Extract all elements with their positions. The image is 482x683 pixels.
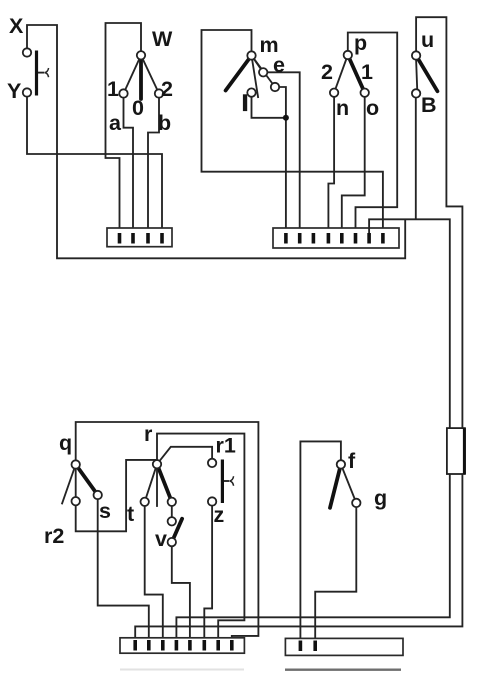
svg-text:o: o: [366, 96, 379, 120]
label t: [127, 502, 134, 526]
svg-text:X: X: [9, 14, 24, 38]
wire b: contact 2 to J1 pin 3: [148, 98, 159, 236]
selector S7 (r) common wire to C3 pin 7: [157, 434, 244, 641]
svg-text:r1: r1: [216, 434, 236, 458]
selector m throw to contact e: [252, 56, 264, 73]
label f: [348, 449, 356, 473]
selector p wiper to contact o: [348, 55, 365, 93]
label p: [354, 31, 367, 55]
J1 pin 1: [118, 233, 122, 244]
contact z: [208, 497, 216, 505]
C4 pin 2: [313, 641, 317, 652]
contact f: [337, 460, 345, 468]
contact p common: [344, 51, 352, 59]
label g: [374, 486, 387, 510]
label z: [214, 503, 225, 527]
contact g: [352, 499, 360, 507]
connector J1: [107, 228, 172, 247]
label v: [155, 527, 167, 551]
selector W throw to contact 1: [124, 55, 142, 93]
contact t: [141, 498, 149, 506]
selector S6 (q) common wire to C3 pin 8: [76, 422, 259, 641]
C3 pin 1: [133, 640, 137, 651]
switch v top contact: [168, 517, 176, 525]
J2 pin 7: [367, 233, 371, 244]
label l: [243, 94, 247, 111]
label 1: [107, 77, 119, 101]
label n: [336, 96, 349, 120]
label r: [144, 422, 153, 446]
wire r2 contact to r common: [76, 460, 157, 531]
connector J2: [273, 228, 399, 248]
selector q wiper to s: [76, 465, 98, 496]
contact s: [94, 491, 102, 499]
svg-text:2: 2: [321, 60, 333, 84]
J2 pin 6: [354, 233, 358, 244]
contact 2 of W: [155, 89, 163, 97]
J2 pin 4: [327, 233, 331, 244]
svg-text:r: r: [144, 422, 153, 446]
J1 pin 2: [131, 233, 135, 244]
switch S5 (u/B) blade open: [416, 56, 437, 92]
svg-text:p: p: [354, 31, 367, 55]
wire f to C4 pin 1: [300, 441, 341, 642]
label X: [9, 14, 24, 38]
label W: [152, 27, 173, 51]
J2 pin 3: [312, 233, 316, 244]
label B: [421, 93, 437, 117]
cable marker box on right rails: [447, 428, 465, 474]
J2 pin 1: [284, 233, 288, 244]
wire s to C3 pin 2: [98, 499, 149, 640]
contact m common: [247, 51, 255, 59]
J2 pin 2: [298, 233, 302, 244]
label 1 of p: [361, 60, 373, 84]
wire l to junction: [252, 97, 286, 118]
label o: [366, 96, 379, 120]
junction dot: [283, 115, 289, 121]
label r2: [44, 524, 64, 548]
label q: [59, 431, 72, 455]
wire v to C3 pin 5: [172, 546, 190, 640]
svg-text:1: 1: [361, 60, 373, 84]
label 2 of p: [321, 60, 333, 84]
label e: [273, 53, 285, 77]
middle contact of m: [271, 83, 279, 91]
selector r wiper: [157, 464, 172, 502]
contact r2: [72, 497, 80, 505]
label s: [99, 499, 111, 523]
wire middle contact to J2 pin 1: [279, 87, 286, 233]
contact u: [412, 51, 420, 59]
contact X: [23, 48, 31, 56]
pushbutton r1/z actuator bar: [222, 460, 233, 504]
wire a: contact 1 to J1 pin 2: [124, 98, 134, 236]
svg-text:B: B: [421, 93, 437, 117]
svg-text:f: f: [348, 449, 356, 473]
contact W common: [137, 51, 145, 59]
svg-text:q: q: [59, 431, 72, 455]
switch f throw to g: [341, 464, 356, 503]
selector q throw to r2 contact: [75, 465, 77, 502]
J2 pin 5: [340, 233, 344, 244]
contact 1 of W: [119, 89, 127, 97]
C3 pin 6: [203, 640, 207, 651]
svg-text:n: n: [336, 96, 349, 120]
selector q open throw: [62, 465, 76, 505]
wire Y to connector J1 pin 4: [27, 97, 162, 236]
C3 pin 2: [147, 640, 151, 651]
wire X net: X contact to node at C2 pin7 line: [27, 25, 405, 258]
label r1: [216, 434, 236, 458]
wire t to C3 pin 3: [145, 506, 163, 641]
selector S3 (m) common wire to J2 pin 8: [202, 30, 383, 233]
selector p throw to contact n: [334, 55, 348, 93]
svg-text:z: z: [214, 503, 225, 527]
contact Y: [23, 88, 31, 96]
C3 pin 5: [188, 640, 192, 651]
contact n: [330, 89, 338, 97]
svg-text:1: 1: [107, 77, 119, 101]
svg-text:0: 0: [132, 96, 144, 120]
svg-text:Y: Y: [7, 79, 21, 103]
wire u net: right rail to C3 pin 1: [135, 17, 462, 640]
contact B: [412, 89, 420, 97]
pushbutton S8 (r1/z) contacts: [208, 459, 216, 467]
connector C4: [285, 638, 403, 655]
C3 pin 4: [175, 640, 179, 651]
switch u/B throw line: [416, 60, 417, 89]
svg-text:t: t: [127, 502, 134, 526]
contact o: [361, 89, 369, 97]
svg-text:b: b: [158, 111, 171, 135]
svg-text:u: u: [421, 28, 434, 52]
switch S9 (f/g) blade open: [330, 464, 341, 507]
selector S2 (W) common wire to J1 pin 1: [106, 23, 142, 236]
J1 pin 3: [146, 233, 150, 244]
selector S4 (p) common wire to J2 pin 6: [348, 33, 397, 234]
svg-text:a: a: [109, 111, 122, 135]
pushbutton S1 (X/Y) actuator bar: [37, 51, 49, 96]
svg-text:r2: r2: [44, 524, 64, 548]
selector r open throw: [156, 464, 158, 507]
J1 pin 4: [160, 233, 164, 244]
wire z to C3 pin 6: [204, 506, 212, 641]
label 2: [161, 77, 173, 101]
label u: [421, 28, 434, 52]
svg-text:2: 2: [161, 77, 173, 101]
contact e: [259, 68, 267, 76]
C4 pin 1: [299, 641, 303, 652]
wire g to C4 pin 2: [315, 507, 356, 642]
selector m wiper (open position): [226, 56, 252, 91]
label Y: [7, 79, 21, 103]
wire B to X node: [415, 98, 417, 220]
selector m open throw line: [252, 56, 259, 99]
label b: [158, 111, 171, 135]
contact l: [247, 88, 255, 96]
selector W wiper at position 0: [139, 57, 143, 99]
svg-text:W: W: [152, 27, 173, 51]
label 0: [132, 96, 144, 120]
svg-text:s: s: [99, 499, 111, 523]
connector C3: [120, 638, 244, 653]
svg-text:v: v: [155, 527, 167, 551]
scan shadow under C4: [285, 669, 401, 671]
switch v blade open: [172, 519, 182, 542]
wire wiper contact to v top: [171, 506, 173, 517]
wire o to J2 pin 5: [342, 97, 365, 233]
contact q common: [72, 460, 80, 468]
scan shadow under C3: [120, 669, 244, 671]
label m: [260, 33, 279, 57]
C3 pin 3: [161, 640, 165, 651]
C3 pin 7: [216, 640, 220, 651]
contact of r wiper: [168, 498, 176, 506]
wire r common to r1: [157, 447, 212, 464]
svg-text:e: e: [273, 53, 285, 77]
wire e to J2 pin 2: [267, 72, 299, 233]
switch v bottom contact: [168, 538, 176, 546]
label a: [109, 111, 122, 135]
contact r common: [153, 460, 161, 468]
selector m throw to middle contact: [252, 56, 276, 88]
wire n to J2 pin 4: [328, 97, 334, 233]
wire J2 pin 7 / X / B net down to C3 pin 4: [176, 219, 449, 640]
svg-text:g: g: [374, 486, 387, 510]
selector W throw to contact 2: [141, 55, 159, 93]
J2 pin 8: [381, 233, 385, 244]
C3 pin 8: [230, 640, 234, 651]
selector r throw to t: [145, 464, 157, 502]
